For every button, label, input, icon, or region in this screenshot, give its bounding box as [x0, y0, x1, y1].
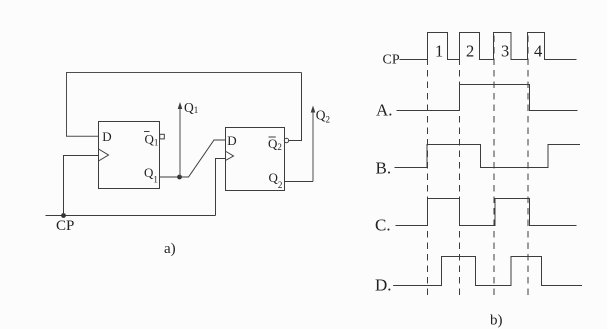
waveform B	[395, 145, 581, 168]
svg-text:Q2: Q2	[268, 136, 282, 152]
svg-text:a): a)	[164, 241, 176, 257]
svg-text:C.: C.	[375, 216, 391, 235]
signal arrow Q1	[178, 100, 199, 177]
U1 clock triangle	[99, 149, 109, 161]
node Q1 junction	[177, 175, 182, 180]
svg-text:CP: CP	[383, 53, 400, 68]
svg-text:Q2: Q2	[269, 170, 283, 190]
U2 pin label Q2-bar	[268, 136, 282, 152]
svg-text:2: 2	[466, 42, 474, 61]
waveform A	[397, 85, 578, 111]
svg-text:B.: B.	[376, 159, 392, 178]
svg-text:D: D	[102, 129, 111, 144]
svg-text:b): b)	[490, 313, 503, 329]
wire CP to U2 clock	[216, 159, 227, 216]
svg-text:1: 1	[435, 42, 443, 61]
svg-text:D: D	[227, 133, 236, 148]
flip-flop U2 box	[226, 128, 285, 191]
clock edge guide line 1	[427, 36, 429, 299]
svg-text:3: 3	[501, 42, 509, 61]
flip-flop U1 box	[99, 122, 160, 189]
U1 inverted output bubble	[160, 134, 165, 139]
U2 clock triangle	[226, 152, 234, 161]
svg-text:4: 4	[534, 42, 542, 61]
wire Q2 output	[285, 181, 314, 183]
svg-text:A.: A.	[376, 101, 393, 120]
wire feedback from Q2-bar output to D1 input (top)	[67, 73, 302, 137]
waveform D	[393, 257, 582, 286]
wire CP to U1 clock	[64, 156, 99, 216]
clock edge guide line 2	[459, 36, 461, 299]
svg-text:Q2: Q2	[316, 108, 330, 125]
node CP junction	[61, 213, 66, 218]
svg-text:Q1: Q1	[144, 165, 158, 185]
wire Q1 to U2 D input (diagonal)	[180, 140, 227, 177]
svg-text:D.: D.	[375, 276, 392, 295]
svg-text:Q1: Q1	[184, 100, 198, 115]
clock edge guide line 3	[493, 36, 495, 299]
signal arrow Q2	[311, 106, 330, 182]
U2 inverted output bubble	[284, 138, 288, 142]
wire Q1 output	[159, 176, 179, 178]
clock edge guide line 4	[527, 36, 529, 299]
U1 pin label Q1-bar	[144, 131, 158, 147]
svg-text:Q1: Q1	[145, 131, 159, 147]
svg-text:CP: CP	[56, 218, 74, 234]
wire Q2-bar bubble to feedback riser	[289, 73, 302, 141]
waveform C	[396, 199, 577, 226]
waveform CP	[400, 33, 577, 60]
wire CP bus	[46, 215, 216, 217]
